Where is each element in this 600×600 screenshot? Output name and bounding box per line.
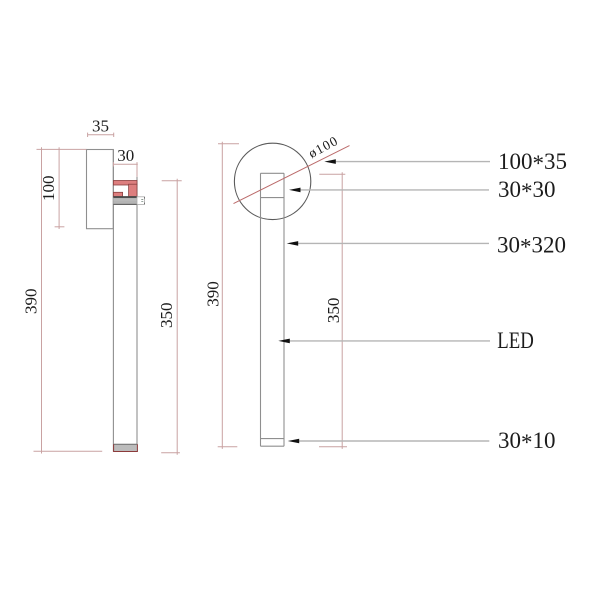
dimension 390 (left view) xyxy=(34,147,103,453)
leader 100*35 line xyxy=(333,161,490,163)
mount block top edge xyxy=(261,172,285,174)
wall plate (35x100 side view) xyxy=(87,150,114,229)
svg-text:100*35: 100*35 xyxy=(498,149,567,176)
bracket bottom line xyxy=(113,196,137,198)
dimension 350 (front view) xyxy=(319,172,347,449)
leader 100*35 arrow xyxy=(324,159,336,164)
dimension 390 (front view) xyxy=(218,142,239,449)
dimension 30 (left view top) xyxy=(114,162,138,177)
bottom cap (side view, 30*10) xyxy=(114,444,138,451)
LED diffuser strip (gray, side view) xyxy=(113,198,137,205)
leader LED line xyxy=(287,340,490,342)
leader LED arrow xyxy=(278,339,290,344)
svg-text:30: 30 xyxy=(117,146,134,165)
bracket top band (red profile) xyxy=(113,181,137,186)
dimension 350 (left view) xyxy=(161,179,182,455)
pole bottom edge (front view) xyxy=(261,445,285,447)
pole (front view) left edge xyxy=(260,173,262,446)
svg-text:390: 390 xyxy=(22,289,41,315)
pole (front view) right edge xyxy=(283,173,285,446)
leader 30*320 line xyxy=(295,242,489,244)
phi100 diameter line (red diagonal) xyxy=(234,146,350,204)
bottom cap top line (front view) xyxy=(261,438,285,440)
svg-text:350: 350 xyxy=(324,298,343,324)
bracket left block (red profile) xyxy=(113,192,122,196)
dimension 35 (top) xyxy=(88,133,114,137)
pole right edge (side view) xyxy=(136,177,138,452)
leader 30*30 line xyxy=(297,189,489,191)
mount block bottom edge (30*30) xyxy=(261,197,285,199)
leader 30*10 line xyxy=(297,440,489,442)
svg-text:30*30: 30*30 xyxy=(498,177,556,204)
leader 30*320 arrow xyxy=(287,241,299,246)
svg-text:350: 350 xyxy=(157,303,176,329)
svg-text:390: 390 xyxy=(204,281,223,307)
bracket right leg (red profile) xyxy=(129,184,137,196)
mount circle (phi 100) xyxy=(234,143,310,219)
pole left edge (side view) xyxy=(112,150,114,452)
leader 30*10 arrow xyxy=(288,439,300,444)
svg-text:30*10: 30*10 xyxy=(498,428,556,455)
svg-text:30*320: 30*320 xyxy=(497,232,566,259)
leader 30*30 arrow xyxy=(289,188,301,193)
svg-text:LED: LED xyxy=(497,328,534,353)
end clip (small white box right of strip) xyxy=(137,197,145,205)
dimension 100 (plate height) xyxy=(55,147,65,229)
svg-text:35: 35 xyxy=(92,117,109,136)
end clip notch marks xyxy=(141,200,143,202)
